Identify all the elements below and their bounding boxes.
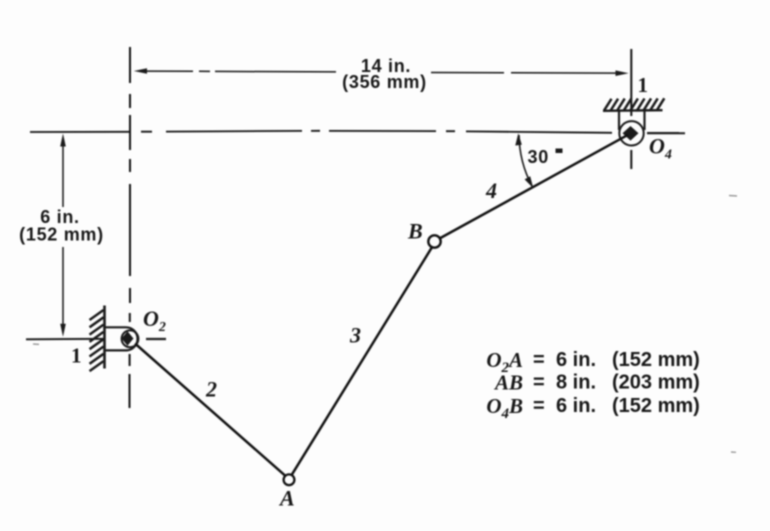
svg-text:3: 3 (349, 323, 361, 348)
svg-text:8 in.: 8 in. (556, 372, 596, 394)
svg-text:1: 1 (638, 73, 649, 97)
svg-text:6 in.: 6 in. (556, 395, 596, 417)
svg-text:4: 4 (485, 178, 497, 203)
svg-text:=: = (533, 372, 545, 394)
svg-text:B: B (407, 219, 423, 244)
svg-text:(152 mm): (152 mm) (19, 225, 104, 245)
svg-text:O4B: O4B (486, 394, 523, 422)
svg-text:(356 mm): (356 mm) (342, 72, 427, 92)
svg-text:2: 2 (205, 377, 217, 402)
svg-text:=: = (533, 395, 545, 417)
svg-text:O2: O2 (143, 306, 166, 335)
svg-text:A: A (278, 486, 295, 511)
svg-text:O4: O4 (649, 134, 672, 163)
svg-text:(152 mm): (152 mm) (612, 349, 700, 371)
svg-text:6 in.: 6 in. (556, 349, 596, 371)
svg-text:(203 mm): (203 mm) (612, 372, 700, 394)
svg-text:(152 mm): (152 mm) (612, 395, 700, 417)
svg-text:AB: AB (493, 371, 523, 395)
svg-text:30: 30 (528, 147, 549, 167)
svg-text:=: = (533, 349, 545, 371)
svg-text:1: 1 (71, 344, 82, 368)
